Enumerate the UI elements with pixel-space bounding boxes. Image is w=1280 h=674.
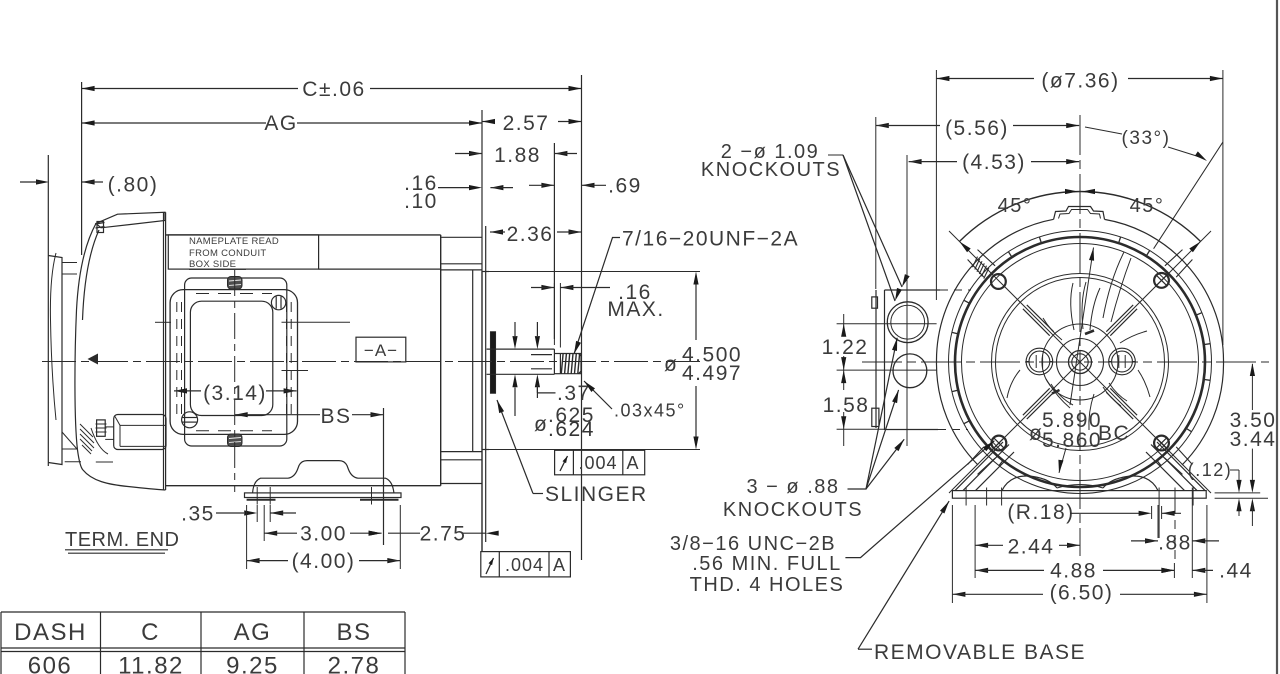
svg-text:1.88: 1.88 bbox=[494, 144, 541, 167]
svg-text:ø: ø bbox=[534, 413, 548, 436]
svg-text:A: A bbox=[553, 555, 566, 575]
threaded section 7/16-20 bbox=[560, 353, 581, 355]
dim 2.57 bbox=[482, 121, 494, 123]
svg-text:KNOCKOUTS: KNOCKOUTS bbox=[723, 499, 863, 521]
svg-text:REMOVABLE BASE: REMOVABLE BASE bbox=[874, 641, 1086, 664]
cover screw top-right bbox=[271, 295, 285, 309]
conduit box lid bbox=[185, 278, 287, 446]
runout frame upper bbox=[555, 450, 645, 475]
svg-text:BC: BC bbox=[1098, 422, 1130, 445]
svg-text:NAMEPLATE READ: NAMEPLATE READ bbox=[189, 236, 279, 247]
fan cover top screw bbox=[97, 222, 104, 233]
knockout vertical line bbox=[906, 155, 908, 446]
through-bolt boss left bbox=[1026, 348, 1053, 375]
box lips bbox=[872, 297, 878, 308]
svg-text:3/8−16 UNC−2B: 3/8−16 UNC−2B bbox=[670, 533, 836, 555]
base gussets left bbox=[963, 445, 1009, 491]
svg-text:3.44: 3.44 bbox=[1230, 428, 1277, 451]
feet humps bbox=[1002, 476, 1057, 491]
svg-text:AG: AG bbox=[264, 112, 297, 135]
svg-text:1.58: 1.58 bbox=[823, 394, 870, 417]
inner rim circles bbox=[992, 274, 1169, 451]
horizontal centerline end view bbox=[862, 361, 1269, 363]
BS extension line bbox=[383, 408, 385, 545]
svg-text:AG: AG bbox=[234, 619, 272, 646]
face inner circle bbox=[962, 244, 1199, 481]
svg-text:(33°): (33°) bbox=[1122, 128, 1171, 149]
dim C±.06 dimension line bbox=[82, 88, 298, 90]
cover hidden dashes left bbox=[176, 302, 178, 420]
NW lug hatch bbox=[984, 268, 989, 279]
extension line left x=81.6 bbox=[81, 82, 83, 255]
33deg radial line bbox=[1154, 142, 1223, 249]
shaft outline bbox=[487, 348, 555, 350]
shell ribs bbox=[1204, 343, 1210, 346]
shell inner circle bbox=[949, 231, 1212, 494]
lifting boss hat top bbox=[1054, 207, 1105, 220]
shell corner lugs bbox=[1165, 250, 1193, 278]
dim (.80) bbox=[36, 179, 49, 184]
runout frame lower bbox=[481, 552, 571, 577]
body seam lines bbox=[319, 268, 441, 270]
svg-text:3 − ø .88: 3 − ø .88 bbox=[747, 476, 840, 498]
extension line right x=581.5 bbox=[581, 75, 583, 560]
svg-text:(4.53): (4.53) bbox=[962, 151, 1026, 174]
svg-text:3.00: 3.00 bbox=[300, 523, 347, 546]
svg-text:(.12): (.12) bbox=[1188, 460, 1233, 480]
mounting bolt holes 4x bbox=[991, 274, 1006, 289]
cover screw bottom-left bbox=[182, 412, 198, 428]
dim (5.56) bbox=[876, 123, 889, 128]
grease fitting on cover bbox=[88, 354, 99, 365]
dim BS bbox=[235, 412, 248, 417]
knockout leaders upper bbox=[828, 154, 843, 156]
cover hatch lower left bbox=[80, 424, 93, 437]
svg-text:2.78: 2.78 bbox=[328, 653, 381, 674]
fan blades bbox=[1071, 283, 1074, 330]
svg-text:SLINGER: SLINGER bbox=[545, 483, 648, 506]
conduit box opening bbox=[190, 301, 272, 415]
svg-text:.37: .37 bbox=[557, 382, 591, 405]
svg-text:.004: .004 bbox=[578, 453, 617, 473]
vertical centerline end view bbox=[1079, 115, 1081, 556]
3/8 leader bbox=[845, 441, 994, 558]
knockout ext lines bbox=[837, 323, 937, 325]
svg-text:MAX.: MAX. bbox=[607, 298, 664, 321]
dim 2.44 bbox=[975, 543, 988, 548]
svg-text:KNOCKOUTS: KNOCKOUTS bbox=[701, 159, 841, 181]
svg-text:.69: .69 bbox=[608, 175, 642, 198]
slinger (dark bar) bbox=[490, 332, 496, 394]
svg-text:45°: 45° bbox=[1130, 195, 1165, 217]
svg-text:A: A bbox=[626, 453, 639, 473]
web slots on diagonals bbox=[1106, 305, 1137, 336]
cover hidden dashes bottom bbox=[196, 430, 272, 432]
svg-text:.624: .624 bbox=[548, 418, 595, 441]
svg-text:.88: .88 bbox=[1158, 532, 1192, 555]
svg-text:2.44: 2.44 bbox=[1008, 536, 1055, 559]
svg-text:−A−: −A− bbox=[364, 341, 398, 360]
nameplate box bbox=[168, 235, 318, 269]
through-bolt boss right bbox=[1109, 348, 1136, 375]
motor horizontal centerline bbox=[42, 361, 703, 363]
dim (3.14) bbox=[174, 388, 187, 393]
base plate ticks bbox=[965, 488, 967, 506]
box vertical centerline bbox=[234, 270, 236, 492]
table grid bbox=[1, 611, 405, 613]
knockout leaders lower bbox=[848, 338, 898, 489]
svg-text:(R.18): (R.18) bbox=[1007, 501, 1074, 524]
knockout .88 bbox=[893, 354, 927, 388]
svg-text:(.80): (.80) bbox=[108, 174, 159, 197]
svg-text:.03x45°: .03x45° bbox=[614, 401, 686, 421]
svg-text:9.25: 9.25 bbox=[226, 653, 279, 674]
svg-text:.10: .10 bbox=[404, 190, 438, 213]
svg-text:(ø7.36): (ø7.36) bbox=[1041, 70, 1119, 93]
dim .37 bbox=[536, 385, 538, 393]
dim 2.36 bbox=[490, 229, 503, 234]
shaft circles bbox=[1069, 351, 1092, 374]
sheet border right bbox=[1276, 0, 1278, 674]
end bell hub section bbox=[441, 236, 482, 238]
foot profile bbox=[253, 461, 394, 493]
svg-text:1.22: 1.22 bbox=[822, 336, 869, 359]
conduit box side bbox=[875, 290, 877, 428]
dim .69 bbox=[541, 183, 554, 188]
dim BC ø5.890/5.860 bbox=[1070, 248, 1094, 406]
foot pads under plate bbox=[247, 499, 276, 501]
knockout stub centerlines bbox=[155, 321, 171, 323]
svg-text:7/16−20UNF−2A: 7/16−20UNF−2A bbox=[622, 228, 799, 251]
dim .16 MAX bbox=[553, 283, 555, 345]
svg-text:.44: .44 bbox=[1219, 560, 1253, 583]
cover-hub joint top bbox=[62, 262, 77, 264]
motor face circle thick bbox=[955, 237, 1205, 487]
svg-text:(5.56): (5.56) bbox=[945, 117, 1009, 140]
45-degree diagonal centerlines bbox=[949, 231, 1211, 493]
base gussets right bbox=[1151, 445, 1197, 491]
dim 3.00 bbox=[264, 531, 277, 536]
svg-text:C±.06: C±.06 bbox=[302, 78, 365, 101]
svg-text:(4.00): (4.00) bbox=[292, 550, 356, 573]
conduit box cover bbox=[170, 290, 297, 435]
svg-text:4.497: 4.497 bbox=[682, 362, 742, 385]
datum -A- box bbox=[356, 337, 406, 362]
lower boss on cover bbox=[114, 415, 166, 450]
svg-text:BS: BS bbox=[320, 405, 351, 428]
dim ø4.500/4.497 bbox=[489, 271, 700, 273]
boss curve bbox=[91, 428, 108, 454]
outer shell circle bbox=[936, 219, 1053, 362]
conduit box top screw bbox=[228, 277, 243, 290]
dim (ø7.36) bbox=[936, 78, 1034, 80]
svg-text:.56 MIN. FULL: .56 MIN. FULL bbox=[692, 553, 842, 575]
svg-text:FROM CONDUIT: FROM CONDUIT bbox=[189, 248, 266, 259]
extension line x=554.4 bbox=[553, 143, 555, 339]
svg-text:4.88: 4.88 bbox=[1050, 560, 1097, 583]
dim 2.75 bbox=[369, 531, 382, 536]
foot base plate bbox=[245, 493, 402, 498]
dim .88 bbox=[1145, 538, 1158, 543]
boss clamp bolt bbox=[97, 420, 106, 436]
svg-text:11.82: 11.82 bbox=[118, 653, 184, 674]
svg-text:5.860: 5.860 bbox=[1042, 429, 1102, 452]
cover-hub joint bottom bbox=[62, 448, 77, 450]
fan cover right edge bbox=[163, 213, 165, 490]
fan cover inner curve bbox=[83, 230, 100, 320]
svg-text:ø: ø bbox=[664, 353, 678, 376]
dim 1.22/1.58 line bbox=[843, 314, 845, 336]
conduit box bottom screw bbox=[228, 434, 243, 447]
svg-text:2.36: 2.36 bbox=[507, 223, 554, 246]
thread relief neck bbox=[553, 349, 555, 374]
dim (4.53) bbox=[909, 159, 922, 164]
svg-text:45°: 45° bbox=[998, 195, 1033, 217]
svg-text:2.75: 2.75 bbox=[420, 523, 467, 546]
cover hidden dashes top bbox=[196, 293, 272, 295]
hub circles bbox=[1042, 324, 1118, 400]
foot slot ticks bbox=[256, 487, 258, 505]
dim arrows shaft diameter bbox=[512, 336, 517, 349]
shaft end chamfer bbox=[579, 354, 582, 357]
svg-text:DASH: DASH bbox=[14, 619, 87, 646]
svg-text:.004: .004 bbox=[505, 555, 544, 575]
svg-text:BS: BS bbox=[336, 619, 371, 646]
svg-text:(6.50): (6.50) bbox=[1050, 582, 1114, 605]
45deg arcs bbox=[959, 192, 1080, 242]
svg-text:606: 606 bbox=[28, 653, 73, 674]
dim AG bbox=[82, 122, 266, 124]
cover hidden dashes right bbox=[286, 302, 288, 420]
svg-text:THD. 4 HOLES: THD. 4 HOLES bbox=[690, 574, 845, 596]
base hidden slot lines bbox=[1158, 505, 1160, 538]
svg-text:TERM. END: TERM. END bbox=[65, 529, 180, 551]
motor body bbox=[166, 234, 441, 236]
dim .44 bbox=[1161, 568, 1174, 573]
knockout 1.09 bbox=[887, 302, 928, 343]
dim 4.88 bbox=[975, 568, 988, 573]
dim (6.50) bbox=[952, 592, 965, 597]
dim (4.00) bbox=[247, 558, 260, 563]
fan cover outline bbox=[75, 223, 166, 490]
svg-text:.35: .35 bbox=[181, 503, 215, 526]
bearing hub cap left end bbox=[47, 155, 49, 466]
svg-text:BOX SIDE: BOX SIDE bbox=[189, 259, 236, 270]
dim 1.88 bbox=[469, 151, 482, 156]
extension line x=482 bbox=[481, 110, 483, 272]
fan cover top lip bbox=[96, 212, 165, 228]
svg-text:(3.14): (3.14) bbox=[203, 382, 267, 405]
base plate bbox=[952, 491, 1206, 499]
svg-text:C: C bbox=[141, 619, 160, 646]
svg-text:2.57: 2.57 bbox=[503, 112, 550, 135]
flange face lines bbox=[481, 272, 483, 552]
